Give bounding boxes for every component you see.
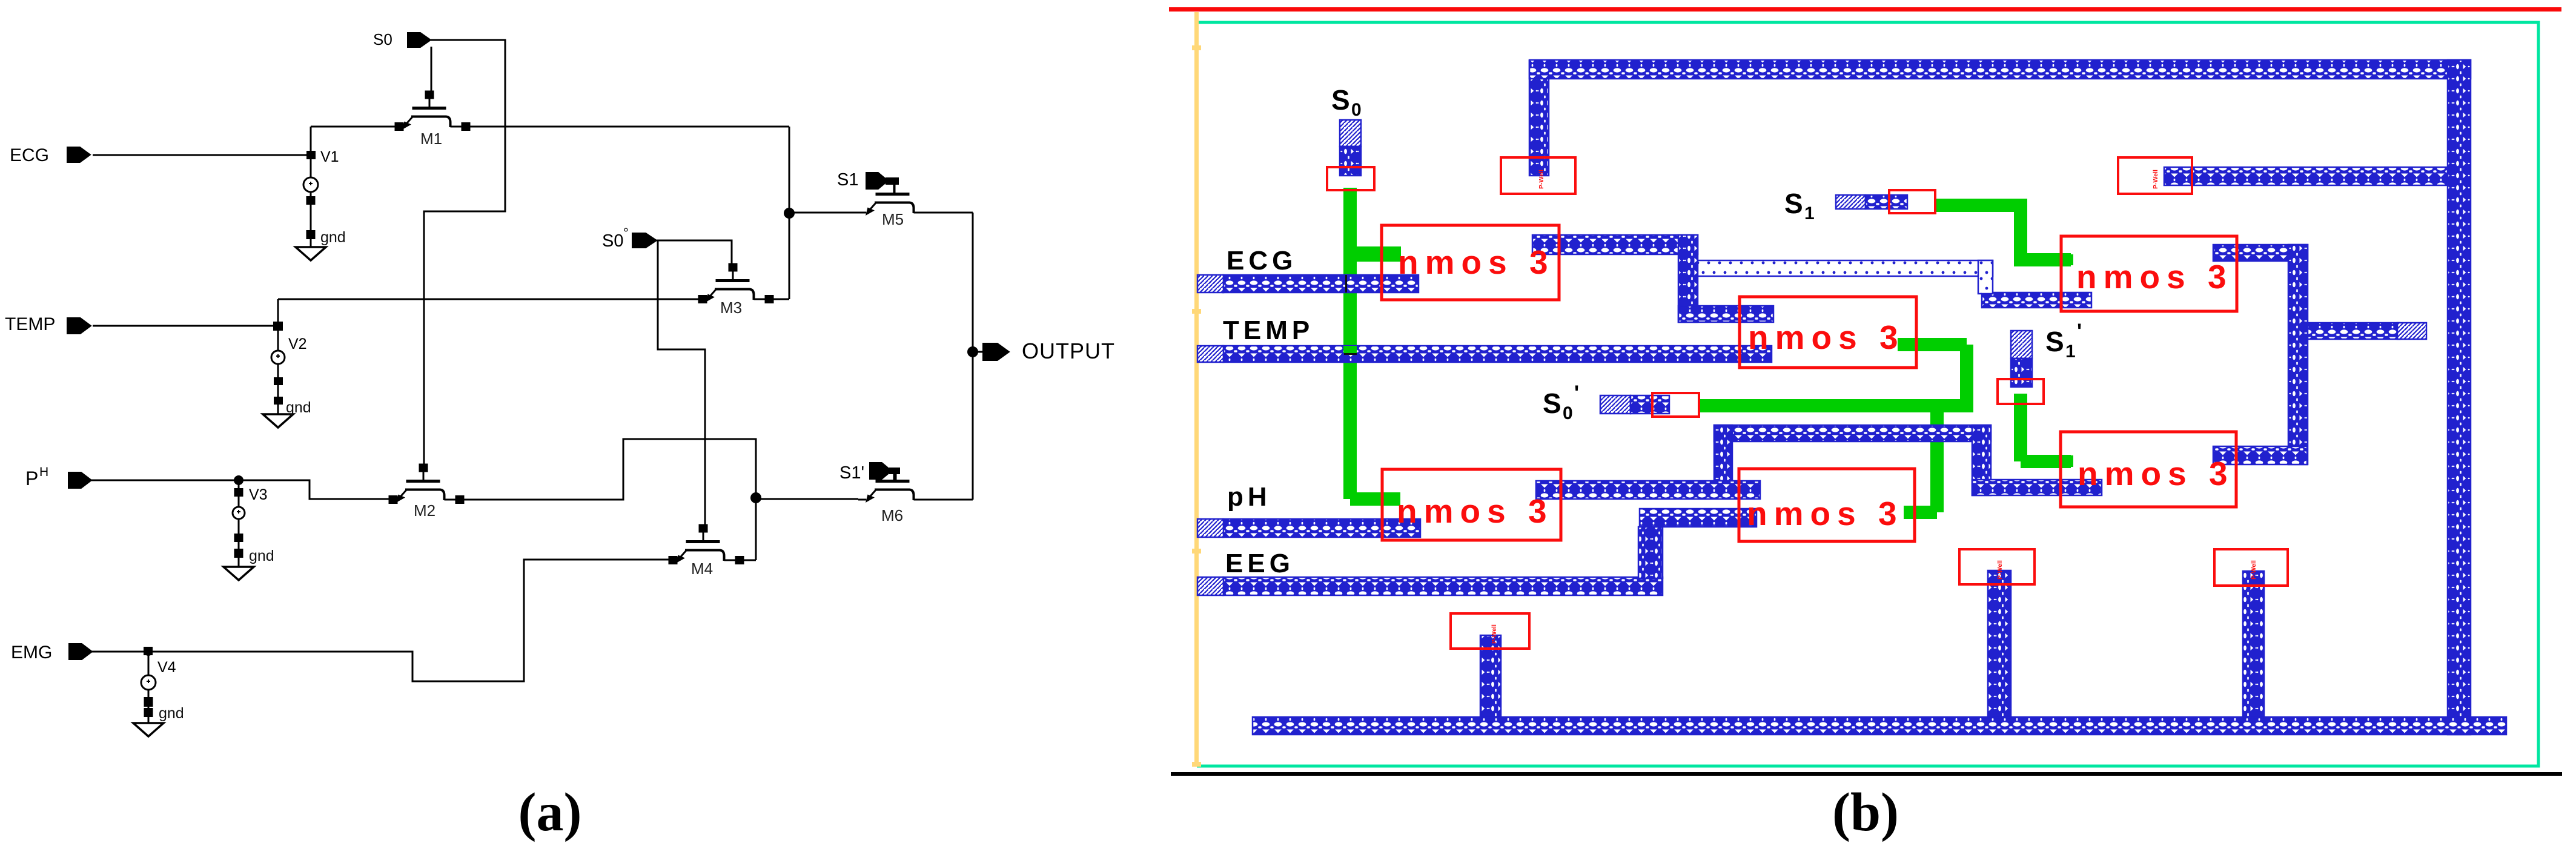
svg-text:V4: V4 [157,659,176,676]
svg-text:0: 0 [1351,100,1362,120]
svg-text:0: 0 [1563,403,1573,423]
svg-text:S0: S0 [373,30,392,48]
svg-text:(a): (a) [518,782,582,842]
svg-text:EMG: EMG [11,643,52,663]
svg-text:°: ° [623,225,629,240]
svg-text:V3: V3 [249,486,268,503]
svg-text:EEG: EEG [1225,549,1294,578]
svg-text:S0: S0 [602,231,623,251]
svg-text:P-Well: P-Well [2250,560,2257,580]
svg-text:': ' [1574,382,1579,405]
svg-text:ECG: ECG [1227,246,1297,276]
svg-text:S: S [1784,188,1803,219]
svg-text:M2: M2 [414,501,435,520]
svg-text:H: H [39,465,48,479]
svg-text:P-Well: P-Well [1996,560,2004,580]
svg-text:gnd: gnd [159,705,184,722]
svg-text:S1: S1 [837,170,858,190]
svg-text:S: S [1543,388,1561,419]
svg-text:nmos 3: nmos 3 [2076,258,2233,296]
svg-text:TEMP: TEMP [1223,316,1314,345]
svg-text:S: S [2045,326,2064,357]
svg-text:S: S [1331,84,1350,116]
svg-text:gnd: gnd [286,399,311,416]
svg-text:ECG: ECG [10,145,49,165]
svg-text:(b): (b) [1832,782,1899,842]
svg-text:1: 1 [2065,342,2076,362]
svg-text:OUTPUT: OUTPUT [1022,339,1115,363]
svg-text:pH: pH [1227,482,1271,512]
svg-text:': ' [2077,320,2082,343]
svg-text:P: P [25,468,38,489]
svg-text:nmos 3: nmos 3 [1398,243,1555,281]
svg-text:nmos 3: nmos 3 [2078,455,2234,492]
svg-text:gnd: gnd [320,229,346,246]
svg-text:S1': S1' [839,463,864,483]
svg-text:gnd: gnd [249,547,274,564]
svg-text:P-Well: P-Well [1491,624,1498,644]
svg-text:M4: M4 [691,560,713,578]
svg-text:nmos 3: nmos 3 [1397,492,1554,530]
svg-text:M5: M5 [882,210,904,228]
svg-text:M1: M1 [420,130,442,148]
svg-text:1: 1 [1804,203,1815,223]
svg-text:M3: M3 [720,299,742,317]
svg-text:P-Well: P-Well [2152,170,2159,189]
svg-text:V2: V2 [288,335,307,352]
svg-text:nmos 3: nmos 3 [1748,319,1905,356]
svg-text:P-Well: P-Well [1538,170,1545,189]
svg-text:M6: M6 [881,506,903,524]
svg-text:V1: V1 [320,148,339,165]
svg-text:TEMP: TEMP [5,314,55,334]
svg-text:nmos 3: nmos 3 [1747,495,1904,532]
